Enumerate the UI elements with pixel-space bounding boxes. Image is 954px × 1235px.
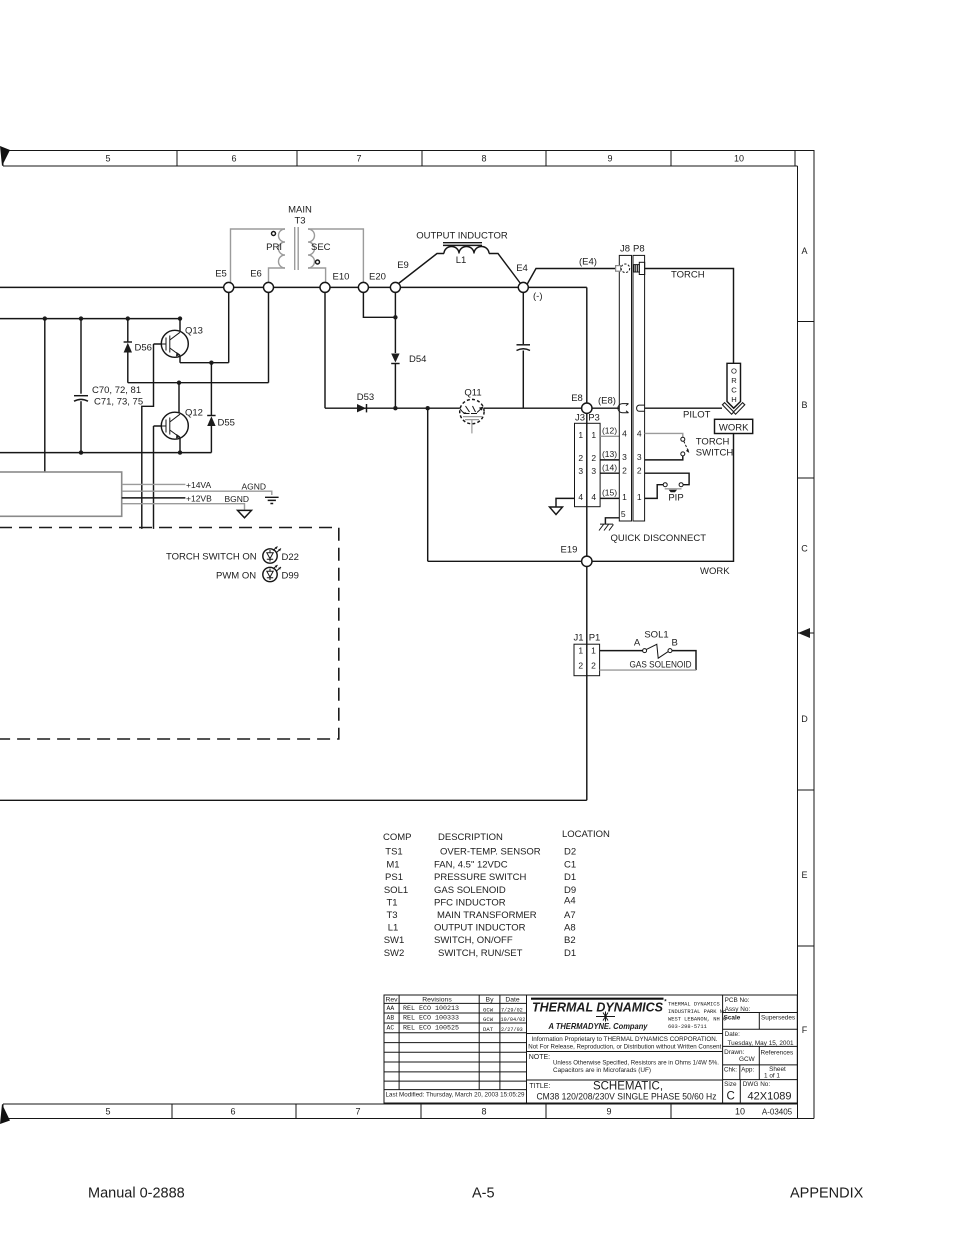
svg-text:T3: T3 bbox=[294, 216, 305, 227]
junction cap low rail bbox=[79, 450, 83, 454]
svg-text:+14VA: +14VA bbox=[186, 480, 211, 490]
node E9 bbox=[390, 282, 400, 292]
svg-text:B2: B2 bbox=[564, 935, 576, 946]
svg-text:E10: E10 bbox=[333, 272, 350, 283]
junction D55 top bbox=[209, 361, 213, 365]
svg-text:10: 10 bbox=[734, 154, 744, 164]
P8 pilot pin bbox=[637, 405, 645, 411]
svg-text:2: 2 bbox=[578, 661, 583, 671]
revision table rows bbox=[384, 1003, 527, 1089]
wire E19 horizontal left bbox=[428, 560, 582, 562]
svg-text:SWITCH, RUN/SET: SWITCH, RUN/SET bbox=[438, 948, 523, 959]
wire AGND bbox=[122, 491, 272, 495]
svg-text:(15): (15) bbox=[602, 488, 617, 498]
wire T3 secondary top to E20 bbox=[308, 229, 363, 282]
svg-text:GAS SOLENOID: GAS SOLENOID bbox=[630, 660, 692, 671]
svg-text:1: 1 bbox=[578, 430, 583, 440]
inductor L1 core bbox=[443, 243, 482, 246]
svg-text:603-298-5711: 603-298-5711 bbox=[668, 1024, 707, 1030]
wire P8-1 to PIP bbox=[645, 485, 664, 499]
junction Q12 emitter bbox=[178, 450, 182, 454]
node E8 bbox=[582, 403, 592, 413]
zone column numbers bottom bbox=[105, 1107, 745, 1117]
wire zone dividers right bbox=[798, 322, 815, 947]
svg-text:C: C bbox=[727, 1091, 735, 1103]
svg-text:Manual 0-2888: Manual 0-2888 bbox=[88, 1186, 185, 1202]
svg-text:Supersedes: Supersedes bbox=[761, 1015, 795, 1022]
svg-text:GAS SOLENOID: GAS SOLENOID bbox=[434, 885, 506, 896]
svg-text:Q12: Q12 bbox=[185, 408, 203, 419]
solenoid SOL1 contacts bbox=[643, 649, 647, 653]
svg-text:3: 3 bbox=[622, 452, 627, 462]
svg-text:A-5: A-5 bbox=[472, 1186, 495, 1202]
svg-text:GCW: GCW bbox=[483, 1016, 494, 1023]
svg-text:Date: Date bbox=[505, 997, 520, 1004]
svg-text:E4: E4 bbox=[516, 263, 528, 274]
torch arc gap chevrons bbox=[722, 403, 733, 415]
svg-text:THERMAL DYNAMICS: THERMAL DYNAMICS bbox=[532, 1000, 663, 1015]
svg-text:10/04/02: 10/04/02 bbox=[501, 1017, 526, 1023]
SCR Q11 bbox=[460, 388, 484, 434]
transformer T3 secondary winding bbox=[308, 229, 315, 268]
J8 torch power contact bbox=[616, 266, 621, 272]
svg-text:WORK: WORK bbox=[719, 423, 749, 434]
node E10 bbox=[320, 282, 330, 292]
chassis ground symbol bbox=[599, 524, 614, 530]
svg-text:(-): (-) bbox=[533, 291, 543, 302]
diode D56 bbox=[127, 319, 129, 342]
svg-text:D1: D1 bbox=[564, 872, 576, 883]
svg-text:E6: E6 bbox=[250, 269, 262, 280]
wire top DC rail bbox=[0, 318, 180, 320]
svg-text:TITLE:: TITLE: bbox=[529, 1083, 550, 1090]
svg-text:7/29/02: 7/29/02 bbox=[501, 1007, 523, 1013]
node E4 bbox=[518, 282, 528, 292]
svg-text:5: 5 bbox=[621, 509, 626, 519]
svg-text:P8: P8 bbox=[633, 244, 645, 255]
svg-text:Q13: Q13 bbox=[185, 326, 203, 337]
svg-text:F: F bbox=[802, 1025, 808, 1035]
svg-text:APPENDIX: APPENDIX bbox=[790, 1186, 864, 1202]
T3 secondary phase dot bbox=[316, 260, 320, 264]
svg-text:NOTE:: NOTE: bbox=[529, 1054, 550, 1061]
svg-text:E8: E8 bbox=[571, 393, 583, 404]
THERMAL DYNAMICS logo bbox=[531, 998, 667, 1031]
zone column numbers top bbox=[105, 154, 744, 164]
revision rows bbox=[387, 1005, 526, 1033]
svg-text:DESCRIPTION: DESCRIPTION bbox=[438, 832, 503, 843]
svg-text:(13): (13) bbox=[602, 449, 617, 459]
svg-text:REL ECO 100525: REL ECO 100525 bbox=[403, 1024, 459, 1031]
svg-text:4: 4 bbox=[622, 429, 627, 439]
J8 pilot socket bbox=[618, 404, 629, 413]
wire main bus E5-E4 bbox=[0, 286, 518, 288]
svg-text:Date:: Date: bbox=[725, 1031, 740, 1038]
PIP switch contacts bbox=[663, 483, 667, 487]
junction rail Q13 collector bbox=[178, 316, 182, 320]
svg-text:Information Proprietary to THE: Information Proprietary to THERMAL DYNAM… bbox=[532, 1036, 718, 1043]
wire P1-1 to solenoid switch bbox=[600, 650, 643, 652]
svg-text:2: 2 bbox=[578, 453, 583, 463]
svg-text:PCB No:: PCB No: bbox=[725, 997, 750, 1004]
svg-text:GCW: GCW bbox=[739, 1056, 756, 1063]
svg-text:1: 1 bbox=[578, 646, 583, 656]
svg-text:A7: A7 bbox=[564, 910, 576, 921]
wire Q11 rail to E19 branch bbox=[427, 408, 429, 561]
svg-text:DWG No:: DWG No: bbox=[743, 1081, 771, 1088]
svg-text:BGND: BGND bbox=[225, 494, 250, 504]
wire PCB supply vertical bbox=[44, 319, 46, 472]
svg-text:B: B bbox=[672, 638, 678, 649]
wire E20 branch to D54 line bbox=[363, 292, 395, 317]
svg-text:E19: E19 bbox=[561, 545, 578, 556]
svg-text:TORCH: TORCH bbox=[671, 270, 705, 281]
svg-text:MAIN TRANSFORMER: MAIN TRANSFORMER bbox=[437, 910, 537, 921]
wire L1 right to E4 bbox=[489, 254, 521, 284]
svg-text:SEC: SEC bbox=[311, 242, 331, 253]
wire solenoid return to P1-2 bbox=[600, 669, 696, 671]
junction rail x44.8 bbox=[43, 316, 47, 320]
transformer T3 core bbox=[295, 227, 299, 270]
svg-text:INDUSTRIAL PARK No: INDUSTRIAL PARK No bbox=[668, 1009, 726, 1015]
svg-text:D: D bbox=[801, 714, 808, 724]
svg-text:PWM ON: PWM ON bbox=[216, 571, 256, 582]
svg-text:PRESSURE SWITCH: PRESSURE SWITCH bbox=[434, 872, 527, 883]
LED D22 bbox=[263, 547, 281, 564]
svg-text:Tuesday, May 15, 2001: Tuesday, May 15, 2001 bbox=[728, 1040, 795, 1047]
svg-text:DAT: DAT bbox=[483, 1026, 494, 1033]
svg-text:2: 2 bbox=[591, 453, 596, 463]
svg-text:6: 6 bbox=[231, 154, 236, 164]
svg-text:SOL1: SOL1 bbox=[644, 630, 668, 641]
svg-text:1: 1 bbox=[591, 646, 596, 656]
svg-text:FAN, 4.5" 12VDC: FAN, 4.5" 12VDC bbox=[434, 860, 508, 871]
wire top band bottom line bbox=[3, 165, 798, 167]
svg-text:REL ECO 100333: REL ECO 100333 bbox=[403, 1015, 459, 1022]
svg-text:10: 10 bbox=[735, 1107, 745, 1117]
svg-text:(14): (14) bbox=[602, 462, 617, 472]
wire E5 drop bbox=[228, 292, 230, 362]
svg-text:A4: A4 bbox=[564, 896, 576, 907]
svg-text:J8: J8 bbox=[620, 244, 630, 255]
svg-text:C70, 72, 81: C70, 72, 81 bbox=[92, 385, 141, 396]
svg-text:D9: D9 bbox=[564, 885, 576, 896]
wire Q13 emitter row bbox=[180, 356, 229, 363]
svg-text:D54: D54 bbox=[409, 354, 426, 365]
junction Q12 collector bbox=[177, 381, 181, 385]
svg-text:WORK: WORK bbox=[700, 566, 730, 577]
capacitor C70-C75 leg bbox=[80, 319, 82, 394]
svg-text:E5: E5 bbox=[215, 269, 227, 280]
wire lower DC rail bbox=[0, 452, 211, 454]
svg-text:1: 1 bbox=[622, 492, 627, 502]
junction rail D56 bbox=[126, 316, 130, 320]
wire P8 to torch head bbox=[645, 269, 734, 365]
svg-text:Last Modified: Thursday, Marc: Last Modified: Thursday, March 20, 2003 … bbox=[386, 1092, 525, 1099]
right section rules bbox=[723, 1013, 798, 1080]
inductor L1 winding bbox=[444, 247, 489, 254]
svg-text:MAIN: MAIN bbox=[288, 205, 312, 216]
title block outer bbox=[384, 995, 797, 1103]
svg-text:Capacitors are in Microfarads: Capacitors are in Microfarads (UF) bbox=[553, 1067, 651, 1074]
svg-text:PRI: PRI bbox=[266, 242, 282, 253]
svg-text:SWITCH, ON/OFF: SWITCH, ON/OFF bbox=[434, 935, 513, 946]
right info cells bbox=[724, 997, 796, 1088]
zone row letters bbox=[801, 246, 808, 1035]
torch head symbol bbox=[727, 363, 741, 408]
wire L1 left to E9 bbox=[399, 254, 445, 284]
revision zone marker triangle bbox=[798, 628, 810, 638]
svg-text:SWITCH: SWITCH bbox=[696, 448, 734, 459]
svg-text:D55: D55 bbox=[218, 418, 235, 429]
svg-text:C: C bbox=[801, 544, 808, 554]
middle section rules bbox=[527, 1034, 723, 1081]
ground J3-4 triangle bbox=[550, 507, 563, 515]
svg-text:PIP: PIP bbox=[668, 493, 683, 504]
node E6 bbox=[264, 282, 274, 292]
svg-text:By: By bbox=[486, 997, 495, 1004]
junction rail x81 bbox=[79, 316, 83, 320]
wire T3 primary bottom to E6 bbox=[269, 268, 286, 282]
torch switch blade bbox=[684, 441, 688, 450]
svg-text:L1: L1 bbox=[456, 255, 467, 266]
PIP actuator bbox=[665, 488, 682, 490]
wire Q12 gate drive bbox=[154, 426, 162, 529]
svg-text:C: C bbox=[731, 386, 737, 395]
svg-text:SW1: SW1 bbox=[384, 935, 405, 946]
svg-text:7: 7 bbox=[356, 154, 361, 164]
wire E6 drop bbox=[268, 292, 270, 382]
svg-text:4: 4 bbox=[578, 492, 583, 502]
svg-text:8: 8 bbox=[481, 154, 486, 164]
svg-text:TS1: TS1 bbox=[385, 847, 402, 858]
svg-text:2: 2 bbox=[622, 466, 627, 476]
svg-text:3: 3 bbox=[591, 466, 596, 476]
svg-text:PILOT: PILOT bbox=[683, 410, 711, 421]
svg-text:8: 8 bbox=[481, 1107, 486, 1117]
svg-text:Rev: Rev bbox=[385, 997, 398, 1004]
LED D99 bbox=[263, 565, 281, 582]
wire E8 down to E19 bbox=[586, 413, 588, 556]
logo sparkle bbox=[596, 1012, 615, 1022]
svg-text:A THERMADYNE. Company: A THERMADYNE. Company bbox=[548, 1022, 648, 1031]
svg-text:QUICK DISCONNECT: QUICK DISCONNECT bbox=[611, 533, 707, 544]
top-left crop arrow bbox=[0, 146, 10, 166]
svg-text:PS1: PS1 bbox=[385, 872, 403, 883]
revision table header bbox=[385, 997, 519, 1004]
svg-text:T3: T3 bbox=[386, 910, 397, 921]
wire E9 vertical through D54 bbox=[394, 292, 396, 408]
ground AGND symbol bbox=[265, 497, 279, 503]
wire E19 down to bottom bus bbox=[586, 567, 588, 801]
wire vertical to E8 bbox=[586, 287, 588, 403]
wire left band edge top bbox=[2, 151, 4, 167]
wire output cathode rail (D53/Q11 line) bbox=[325, 407, 581, 409]
wire Q12 emitter to low rail bbox=[179, 438, 181, 453]
node E5 bbox=[224, 282, 234, 292]
node E19 bbox=[582, 556, 592, 566]
wire mid rail (E6 row) bbox=[128, 382, 269, 384]
wire bottom band top line bbox=[3, 1103, 798, 1105]
revision table verticals bbox=[527, 995, 723, 1103]
svg-text:THERMAL DYNAMICS: THERMAL DYNAMICS bbox=[668, 1002, 720, 1008]
svg-text:OUTPUT INDUCTOR: OUTPUT INDUCTOR bbox=[416, 231, 508, 242]
svg-text:A-03405: A-03405 bbox=[762, 1108, 793, 1117]
svg-text:A8: A8 bbox=[564, 923, 576, 934]
svg-text:P1: P1 bbox=[589, 633, 601, 644]
svg-text:SOL1: SOL1 bbox=[384, 885, 408, 896]
svg-text:M1: M1 bbox=[386, 860, 399, 871]
address small text bbox=[668, 1002, 726, 1031]
wire +14VA bbox=[122, 483, 186, 485]
junction E19 branch bbox=[426, 406, 430, 410]
svg-text:PFC INDUCTOR: PFC INDUCTOR bbox=[434, 898, 506, 909]
transformer T3 primary winding bbox=[279, 229, 285, 268]
svg-text:5: 5 bbox=[105, 154, 110, 164]
svg-text:References: References bbox=[761, 1050, 794, 1057]
svg-text:AA: AA bbox=[387, 1005, 395, 1012]
svg-text:GCW: GCW bbox=[483, 1006, 494, 1013]
svg-text:Scale: Scale bbox=[724, 1015, 741, 1022]
WORK electrode box bbox=[715, 419, 753, 433]
junction E20/D54 bbox=[393, 315, 397, 319]
torch switch contacts bbox=[681, 437, 685, 441]
connector J8 shell bbox=[619, 255, 631, 521]
diode D55 bbox=[210, 363, 212, 415]
wire E10 branch down bbox=[324, 292, 326, 408]
svg-text:A: A bbox=[634, 638, 641, 649]
svg-text:REL ECO 100213: REL ECO 100213 bbox=[403, 1005, 459, 1012]
svg-text:1: 1 bbox=[591, 430, 596, 440]
svg-text:4: 4 bbox=[591, 492, 596, 502]
svg-text:(E8): (E8) bbox=[598, 396, 616, 407]
wire E4 to J8 (E4) lead bbox=[527, 269, 616, 285]
svg-text:TORCH: TORCH bbox=[696, 437, 730, 448]
svg-text:J3: J3 bbox=[575, 413, 585, 424]
wire bottom band dividers bbox=[3, 1104, 671, 1119]
svg-text:(12): (12) bbox=[602, 426, 617, 436]
svg-text:O: O bbox=[731, 367, 737, 376]
T3 primary phase dot bbox=[272, 232, 276, 236]
svg-text:E: E bbox=[801, 870, 807, 880]
P8 torch power pin bbox=[634, 262, 645, 274]
PCB control board box bbox=[0, 472, 122, 516]
svg-text:A: A bbox=[801, 246, 807, 256]
svg-text:D99: D99 bbox=[282, 571, 299, 582]
svg-text:2: 2 bbox=[637, 466, 642, 476]
svg-text:R: R bbox=[731, 376, 737, 385]
wire T3 secondary bottom to E10 bbox=[308, 268, 326, 282]
svg-text:H: H bbox=[731, 395, 736, 404]
IGBT Q13 bbox=[161, 319, 203, 358]
bottom-left crop arrow bbox=[0, 1104, 10, 1124]
svg-text:D56: D56 bbox=[135, 343, 152, 354]
svg-text:7: 7 bbox=[355, 1107, 360, 1117]
wire P8-4 to torch switch bbox=[645, 433, 683, 437]
svg-text:(E4): (E4) bbox=[579, 257, 597, 268]
wire top border outer line bbox=[3, 151, 814, 1119]
wire Q13 gate drive bbox=[142, 344, 162, 529]
wire J8-5 to chassis ground bbox=[605, 518, 619, 524]
svg-text:CM38 120/208/230V SINGLE PHAS: CM38 120/208/230V SINGLE PHASE 50/60 Hz bbox=[537, 1092, 717, 1102]
svg-text:9: 9 bbox=[607, 154, 612, 164]
svg-text:LOCATION: LOCATION bbox=[562, 829, 610, 840]
svg-text:6: 6 bbox=[230, 1107, 235, 1117]
wire T3 primary top to E5 bbox=[231, 229, 286, 282]
svg-text:Revisions: Revisions bbox=[422, 997, 452, 1004]
svg-text:SW2: SW2 bbox=[384, 948, 405, 959]
connector P8 shell bbox=[633, 255, 645, 521]
svg-text:+12VB: +12VB bbox=[186, 494, 212, 504]
svg-text:L1: L1 bbox=[388, 923, 399, 934]
wire bottom band bottom line bbox=[3, 1118, 814, 1120]
wire bus E4 to corner bbox=[529, 286, 587, 288]
wire E8 to J8 bbox=[592, 407, 619, 409]
svg-text:B: B bbox=[801, 400, 807, 410]
svg-text:5: 5 bbox=[105, 1107, 110, 1117]
svg-text:P3: P3 bbox=[588, 413, 600, 424]
svg-text:App:: App: bbox=[741, 1067, 754, 1074]
svg-text:Not For Release, Reproduction,: Not For Release, Reproduction, or Distri… bbox=[528, 1044, 721, 1051]
svg-text:3: 3 bbox=[637, 452, 642, 462]
svg-text:1 of 1: 1 of 1 bbox=[764, 1073, 780, 1080]
J8/P8 pin numbers bbox=[621, 429, 642, 519]
svg-text:TORCH SWITCH ON: TORCH SWITCH ON bbox=[166, 552, 257, 563]
wire (13) P3-2 to J8-3 bbox=[600, 459, 619, 461]
svg-text:E20: E20 bbox=[369, 272, 386, 283]
wire SOL1 B to return bbox=[672, 651, 696, 671]
wire pilot lead bbox=[645, 407, 722, 409]
svg-text:Chk:: Chk: bbox=[724, 1067, 737, 1074]
IGBT Q12 bbox=[161, 383, 203, 440]
svg-text:D2: D2 bbox=[564, 847, 576, 858]
svg-text:AB: AB bbox=[387, 1015, 395, 1022]
svg-text:Assy No:: Assy No: bbox=[725, 1006, 751, 1013]
svg-text:42X1089: 42X1089 bbox=[748, 1091, 792, 1103]
svg-text:C1: C1 bbox=[564, 860, 576, 871]
wire (14) P3-3 to J8-2 bbox=[600, 472, 619, 474]
svg-text:E9: E9 bbox=[397, 260, 409, 271]
wire (12) P3-1 to J8-4 bbox=[600, 435, 619, 437]
wire top band dividers bbox=[177, 151, 795, 167]
svg-text:C71, 73, 75: C71, 73, 75 bbox=[94, 397, 143, 408]
svg-text:D1: D1 bbox=[564, 948, 576, 959]
wire right inner border bbox=[797, 166, 799, 1119]
wire bottom return bus bbox=[0, 799, 587, 801]
solenoid SOL1 blade bbox=[646, 644, 668, 658]
connector J3/P3 shell bbox=[575, 423, 601, 506]
wire P8-2 to PIP bbox=[645, 473, 690, 485]
wire BGND bbox=[122, 504, 245, 510]
svg-text:9: 9 bbox=[606, 1107, 611, 1117]
svg-text:Unless Otherwise Specified, Re: Unless Otherwise Specified, Resistors ar… bbox=[553, 1060, 719, 1067]
wire J3-4 to ground bbox=[556, 498, 575, 506]
svg-text:Drawn:: Drawn: bbox=[724, 1049, 744, 1056]
J3/P3 pin numbers bbox=[578, 430, 596, 502]
svg-text:AC: AC bbox=[387, 1024, 395, 1031]
SHEET FRAME bbox=[3, 151, 814, 1119]
node E20 bbox=[358, 282, 368, 292]
svg-text:AGND: AGND bbox=[242, 482, 267, 492]
ground BGND symbol bbox=[238, 510, 252, 517]
svg-text:OUTPUT INDUCTOR: OUTPUT INDUCTOR bbox=[434, 923, 526, 934]
wire P8-3 to torch switch bbox=[645, 456, 683, 460]
capacitor output (E4 leg) bbox=[522, 292, 524, 344]
diode D54 bbox=[391, 354, 399, 363]
svg-text:T1: T1 bbox=[386, 898, 397, 909]
dashed control PCB outline bbox=[0, 528, 339, 740]
svg-text:J1: J1 bbox=[573, 633, 583, 644]
